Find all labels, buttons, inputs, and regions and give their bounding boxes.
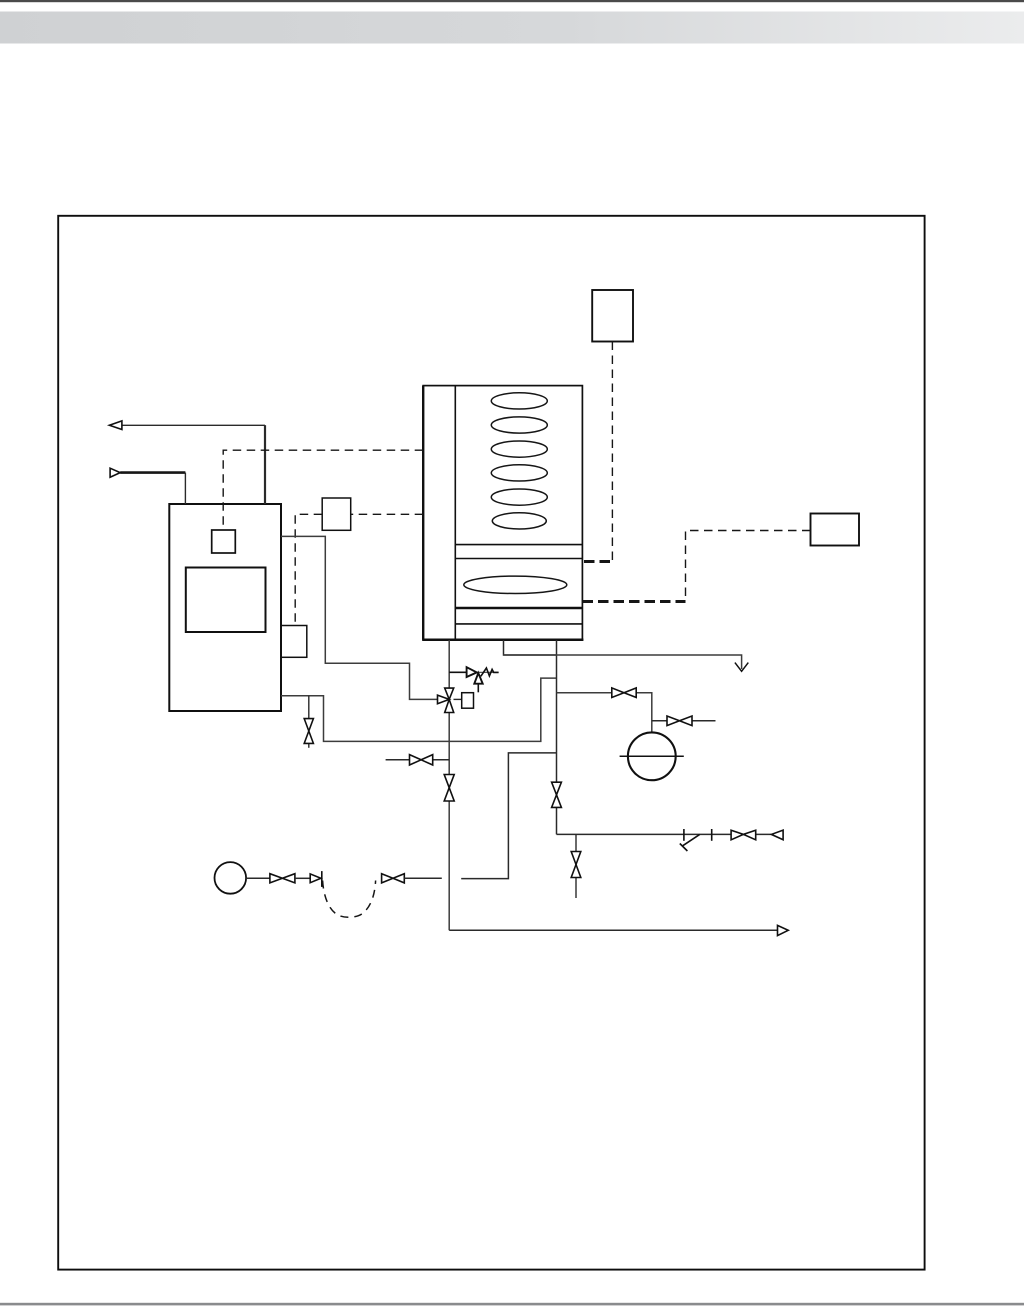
- union tick 2: [711, 829, 713, 841]
- boiler drain stub: [308, 696, 310, 748]
- supply duct stub under cabinet: [504, 640, 557, 655]
- bypass pipe from flex area up to return riser: [461, 753, 556, 879]
- gas shutoff valve: [270, 874, 295, 883]
- valve on air vent stub: [667, 716, 692, 726]
- boiler door (large box): [186, 568, 266, 633]
- combustion air pipe with right arrow: [110, 468, 185, 504]
- open arrowhead left: [109, 421, 122, 430]
- dashed wire aquastat to air handler and boiler jbox: [295, 514, 423, 625]
- blower ellipse: [464, 576, 567, 593]
- swing check valve: [680, 834, 700, 851]
- drain stub on make-up line: [575, 834, 577, 898]
- gate valve on tank branch: [612, 688, 636, 698]
- supply main to system with down arrow: [504, 655, 742, 669]
- gas pipe segment: [295, 877, 310, 879]
- gas pipe to boiler: [404, 877, 442, 879]
- union tick 1: [683, 829, 685, 841]
- expansion tank branch: [557, 693, 652, 733]
- heavy dashed stub to cabinet right: [583, 600, 686, 603]
- dashed wire boiler to air handler (upper): [223, 450, 423, 530]
- bottom return main with arrow: [449, 929, 777, 931]
- air vent stub: [652, 720, 716, 722]
- boiler supply pipe to 3-way valve: [281, 536, 438, 699]
- footer gray rule: [0, 1303, 1024, 1306]
- purge stub with gate valve: [386, 759, 450, 761]
- 3-way mixing valve: [438, 688, 454, 712]
- thermostat dashed wire: [611, 342, 613, 562]
- make-up water inlet symbol: [771, 830, 783, 840]
- boiler control (small box): [212, 530, 236, 553]
- gas meter: [215, 862, 247, 894]
- gas valve 2: [382, 874, 405, 883]
- union tick: [321, 871, 323, 887]
- heavy dashed stub to cabinet (fan control): [584, 560, 612, 563]
- boiler cabinet: [169, 504, 281, 711]
- thermostat box (top): [592, 290, 633, 342]
- make-up water line: [557, 833, 772, 835]
- boiler junction box (side rectangle): [281, 626, 307, 658]
- header gray band: [0, 12, 1024, 44]
- return riser from air handler: [556, 640, 558, 834]
- flexible connector (dashed drip loop): [323, 881, 376, 918]
- valve actuator box: [454, 698, 462, 700]
- control box (right): [811, 514, 860, 546]
- header top rule: [0, 0, 1024, 2]
- balancing valve on riser: [444, 775, 454, 802]
- drain valve: [571, 852, 581, 878]
- boiler drain valve: [304, 719, 313, 744]
- heat exchanger coil ellipses: [491, 393, 547, 529]
- expansion tank: [628, 732, 676, 780]
- pressure relief valve: [449, 667, 498, 692]
- gas pipe: [246, 877, 270, 879]
- aquastat / control box (middle): [322, 498, 351, 530]
- dashed wire from right control box: [686, 531, 811, 602]
- gas cock half valve: [310, 874, 321, 883]
- main riser (3-way valve leg): [448, 640, 450, 930]
- vent pipe with left arrow: [109, 421, 265, 504]
- boiler return piping: [281, 678, 557, 741]
- gate valve on make-up line: [731, 830, 756, 840]
- diagram border frame: [58, 216, 924, 1270]
- air handler cabinet: [422, 386, 583, 640]
- valve on return riser: [552, 782, 562, 807]
